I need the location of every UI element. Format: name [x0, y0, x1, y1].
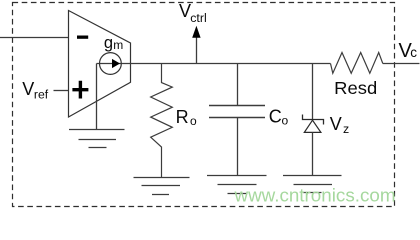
svg-text:V: V	[330, 114, 342, 134]
svg-text:V: V	[22, 79, 34, 99]
svg-text:z: z	[343, 122, 349, 136]
svg-text:c: c	[410, 45, 417, 60]
current source circle of gm	[100, 53, 122, 75]
resistor Ro (vertical zigzag)	[151, 64, 173, 178]
ground (Ro)	[134, 178, 190, 195]
svg-text:o: o	[190, 114, 197, 128]
ground (Vz)	[283, 176, 342, 193]
svg-text:m: m	[113, 38, 123, 52]
ground (Co)	[207, 176, 267, 194]
svg-text:R: R	[176, 107, 189, 127]
resistor Resd (horizontal zigzag)	[331, 53, 383, 74]
svg-text:g: g	[104, 34, 113, 52]
op-amp U1 (OTA body)	[69, 11, 131, 118]
plus sign (non-inverting input)	[72, 81, 88, 99]
capacitor Co	[237, 64, 239, 106]
svg-text:ctrl: ctrl	[190, 11, 207, 25]
wire: main output node	[97, 63, 331, 65]
zener triangle	[304, 120, 321, 132]
wire: gm source to ground	[96, 64, 98, 130]
arrowhead of current source	[112, 59, 120, 68]
svg-text:www.cntronics.com: www.cntronics.com	[233, 185, 395, 205]
dashed boundary box	[13, 3, 395, 207]
svg-text:o: o	[282, 113, 289, 127]
wire: node to Vc output	[383, 63, 420, 65]
svg-text:Resd: Resd	[334, 78, 377, 98]
wire: non-inverting input from Vref	[54, 90, 69, 92]
svg-text:C: C	[269, 106, 282, 126]
minus sign (inverting input)	[77, 36, 88, 39]
svg-text:ref: ref	[34, 88, 49, 102]
ground (op-amp)	[69, 130, 125, 148]
zener bar with bent ends	[303, 115, 324, 125]
wire: inverting input	[0, 37, 69, 39]
arrow Vctrl (up from node)	[196, 37, 198, 64]
zener diode Vz	[312, 64, 314, 120]
